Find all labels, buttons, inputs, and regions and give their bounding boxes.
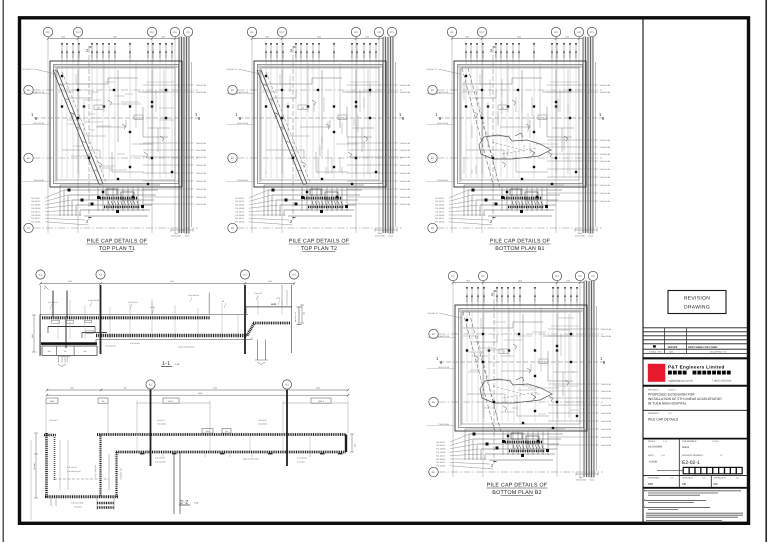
svg-text:KT02-T50 TB: KT02-T50 TB xyxy=(438,366,450,369)
svg-text:T16-150 B1: T16-150 B1 xyxy=(31,204,40,207)
svg-text:REVISION: REVISION xyxy=(684,296,710,302)
svg-text:(T16-150 T): (T16-150 T) xyxy=(258,419,267,422)
svg-text:T16A-150 B1: T16A-150 B1 xyxy=(601,397,612,400)
svg-text:T16-150 T1: T16-150 T1 xyxy=(235,210,244,213)
svg-text:KD: KD xyxy=(432,471,436,474)
svg-text:2T25-G12: 2T25-G12 xyxy=(265,50,268,58)
svg-text:K4: K4 xyxy=(577,31,581,34)
svg-text:T16-150 B2: T16-150 B2 xyxy=(31,207,40,210)
svg-text:2T25-G12: 2T25-G12 xyxy=(563,50,566,58)
svg-text:1/2008: 1/2008 xyxy=(712,440,719,443)
svg-text:1850: 1850 xyxy=(68,280,72,283)
svg-text:T16A-150 B2: T16A-150 B2 xyxy=(437,179,448,182)
svg-text:PROJECT :: PROJECT : xyxy=(648,389,660,392)
svg-text:T16-150 T1: T16-150 T1 xyxy=(435,210,444,213)
svg-text:2T25-G12: 2T25-G12 xyxy=(519,294,522,302)
svg-text:(T16-150 T1): (T16-150 T1) xyxy=(128,301,138,304)
svg-text:(T16A-150 B1): (T16A-150 B1) xyxy=(188,294,200,297)
svg-text:KD: KD xyxy=(432,401,436,404)
svg-text:T16A-150 B2: T16A-150 B2 xyxy=(196,164,207,167)
svg-text:2T25-G12: 2T25-G12 xyxy=(147,50,150,58)
svg-text:750: 750 xyxy=(64,350,67,353)
svg-text:30456: 30456 xyxy=(682,446,690,449)
svg-text:KD: KD xyxy=(431,89,435,92)
svg-text:KD: KD xyxy=(432,333,436,336)
svg-text:T16A-150 B2: T16A-150 B2 xyxy=(400,91,411,94)
svg-text:T16A-150 B2: T16A-150 B2 xyxy=(196,149,207,152)
svg-text:2T25-G12: 2T25-G12 xyxy=(476,50,479,58)
svg-text:2T25-G12: 2T25-G12 xyxy=(575,50,578,58)
svg-text:T16A-150 B1: T16A-150 B1 xyxy=(196,142,207,145)
svg-text:T16-150 B2: T16-150 B2 xyxy=(436,451,445,454)
svg-text:T16-150 T2: T16-150 T2 xyxy=(235,217,244,220)
svg-text:T16-150 T1: T16-150 T1 xyxy=(436,441,445,444)
svg-text:K5: K5 xyxy=(186,31,190,34)
svg-text:2T25-G12: 2T25-G12 xyxy=(171,50,174,58)
svg-text:DATE :: DATE : xyxy=(648,454,655,457)
svg-text:1200: 1200 xyxy=(565,36,569,39)
svg-text:2T25-G12: 2T25-G12 xyxy=(495,50,498,58)
svg-text:T (852) 2155 6121: T (852) 2155 6121 xyxy=(712,379,732,382)
svg-text:2T25-G12: 2T25-G12 xyxy=(91,50,94,58)
svg-text:T16A-150 B2: T16A-150 B2 xyxy=(601,436,612,439)
svg-text:(T16-150 B2): (T16-150 B2) xyxy=(130,342,140,345)
svg-text:2T25-G12: 2T25-G12 xyxy=(369,50,372,58)
svg-text:PILE CAP DETAILS OF: PILE CAP DETAILS OF xyxy=(87,239,148,245)
svg-text:K1: K1 xyxy=(39,274,43,277)
svg-text:S.H: S.H xyxy=(702,477,706,480)
svg-text:T16A-150 B1: T16A-150 B1 xyxy=(601,383,612,386)
svg-text:2T25-G12: 2T25-G12 xyxy=(518,50,521,58)
svg-text:2T25-G12: 2T25-G12 xyxy=(318,50,321,58)
svg-text:1200: 1200 xyxy=(365,36,369,39)
svg-text:T16A-150 B1: T16A-150 B1 xyxy=(600,84,611,87)
svg-text:KT02-T50 TB: KT02-T50 TB xyxy=(237,122,249,125)
svg-text:KD: KD xyxy=(27,227,31,230)
svg-text:K2: K2 xyxy=(280,31,284,34)
svg-text:T16A-150 B1: T16A-150 B1 xyxy=(600,139,611,142)
svg-text:T16-150 T2: T16-150 T2 xyxy=(31,217,40,220)
svg-text:T16-150 T1: T16-150 T1 xyxy=(235,197,244,200)
svg-text:5835: 5835 xyxy=(517,36,521,39)
svg-text:T16-150 B1: T16-150 B1 xyxy=(436,465,445,468)
svg-text:T16A-150 B1: T16A-150 B1 xyxy=(196,172,207,175)
svg-text:T16-150 B2: T16-150 B2 xyxy=(435,214,444,217)
svg-text:IN TUEN MUN HOSPITAL: IN TUEN MUN HOSPITAL xyxy=(648,402,687,406)
svg-text:2T25-G12: 2T25-G12 xyxy=(102,50,105,58)
svg-text:KT02-T50 TB: KT02-T50 TB xyxy=(437,122,449,125)
svg-text:JOB NUMBER :: JOB NUMBER : xyxy=(682,440,698,443)
svg-text:2T25-G12 T1: 2T25-G12 T1 xyxy=(426,68,437,71)
svg-text:(T16-150 T): (T16-150 T) xyxy=(254,292,263,295)
svg-text:2T25-G12: 2T25-G12 xyxy=(363,50,366,58)
svg-text:2T25-G12 T1: 2T25-G12 T1 xyxy=(427,312,438,315)
svg-text:(T12-300): (T12-300) xyxy=(297,460,305,463)
svg-text:2T25-G12 T1: 2T25-G12 T1 xyxy=(226,68,237,71)
svg-text:K1: K1 xyxy=(46,31,50,34)
svg-text:2T25-G12: 2T25-G12 xyxy=(534,294,537,302)
svg-text:K3: K3 xyxy=(555,275,559,278)
svg-text:KR03-T50 TB: KR03-T50 TB xyxy=(437,91,449,94)
svg-text:AS SHOWN: AS SHOWN xyxy=(648,445,662,448)
svg-text:2T25-G12: 2T25-G12 xyxy=(356,50,359,58)
svg-text:2T25-G12: 2T25-G12 xyxy=(66,50,69,58)
svg-text:Lean concrete grout: Lean concrete grout xyxy=(178,346,194,349)
svg-text:T16-150 T2: T16-150 T2 xyxy=(436,444,445,447)
svg-text:T16A-150 B2: T16A-150 B2 xyxy=(438,423,449,426)
svg-text:T#1: T#1 xyxy=(225,430,228,433)
svg-text:BLDG: BLDG xyxy=(389,235,394,238)
svg-text:2T25-G12: 2T25-G12 xyxy=(351,50,354,58)
svg-text:KR03-T50 TB: KR03-T50 TB xyxy=(237,91,249,94)
svg-text:BOTTOM PLAN B2: BOTTOM PLAN B2 xyxy=(492,490,541,496)
svg-text:T16A-150 B2: T16A-150 B2 xyxy=(601,335,612,338)
svg-text:T16A-150 B1: T16A-150 B1 xyxy=(400,172,411,175)
svg-text:KD: KD xyxy=(431,227,435,230)
svg-text:T16A-150 B2: T16A-150 B2 xyxy=(237,179,248,182)
svg-text:T16A-150 B1: T16A-150 B1 xyxy=(400,156,411,159)
svg-text:K2: K2 xyxy=(149,384,153,387)
svg-text:1425: 1425 xyxy=(70,387,74,390)
svg-text:T16-150 B1: T16-150 B1 xyxy=(235,204,244,207)
svg-text:T16A-150 B1: T16A-150 B1 xyxy=(601,428,612,431)
svg-text:K2: K2 xyxy=(481,275,485,278)
svg-text:1200: 1200 xyxy=(161,36,165,39)
svg-text:T16-150 T1: T16-150 T1 xyxy=(31,210,40,213)
svg-text:2T25-G12: 2T25-G12 xyxy=(570,294,573,302)
svg-text:APPROVED :: APPROVED : xyxy=(714,477,728,480)
svg-text:EXTENSION: EXTENSION xyxy=(171,235,182,238)
svg-text:T16A-150 B1: T16A-150 B1 xyxy=(601,412,612,415)
svg-text:KD: KD xyxy=(231,227,235,230)
svg-text:6140: 6140 xyxy=(213,387,217,390)
svg-text:T16A-150 B2: T16A-150 B2 xyxy=(600,176,611,179)
svg-text:14050: 14050 xyxy=(198,392,203,395)
svg-text:BLDG: BLDG xyxy=(590,479,595,482)
svg-text:12/10/09: 12/10/09 xyxy=(668,346,678,349)
svg-text:TOP PLAN T2: TOP PLAN T2 xyxy=(301,246,337,252)
svg-text:KD: KD xyxy=(231,157,235,160)
svg-text:PILE CAP DETAILS: PILE CAP DETAILS xyxy=(648,417,679,421)
svg-text:(T16-150 T1): (T16-150 T1) xyxy=(48,301,58,304)
svg-text:450: 450 xyxy=(48,350,51,353)
svg-text:PILE CAP DETAILS OF: PILE CAP DETAILS OF xyxy=(490,239,551,245)
svg-text:2T25-G12: 2T25-G12 xyxy=(306,50,309,58)
svg-text:T16-150 T2: T16-150 T2 xyxy=(31,200,40,203)
svg-text:T16-150 T2: T16-150 T2 xyxy=(436,461,445,464)
svg-text:SMF-2: SMF-2 xyxy=(318,400,325,403)
svg-text:2T25-G12: 2T25-G12 xyxy=(483,294,486,302)
svg-text:K3: K3 xyxy=(554,31,558,34)
svg-text:PROPOSED EXTENSION FOR: PROPOSED EXTENSION FOR xyxy=(648,392,695,396)
svg-text:T16A-150 B2: T16A-150 B2 xyxy=(196,196,207,199)
svg-text:T16A-150 B1: T16A-150 B1 xyxy=(600,153,611,156)
svg-text:2T25-G12: 2T25-G12 xyxy=(129,50,132,58)
svg-text:750: 750 xyxy=(303,312,306,315)
svg-text:2T25-G12: 2T25-G12 xyxy=(470,50,473,58)
svg-text:T16A-150 B1: T16A-150 B1 xyxy=(400,142,411,145)
svg-text:K4: K4 xyxy=(173,31,177,34)
svg-text:2T25-G12: 2T25-G12 xyxy=(300,50,303,58)
svg-text:2T25-G12: 2T25-G12 xyxy=(78,50,81,58)
svg-text:(T16-150 T2/B2): (T16-150 T2/B2) xyxy=(58,355,71,358)
svg-text:eng@ptelgroup.com.hk: eng@ptelgroup.com.hk xyxy=(668,379,694,382)
svg-text:K3: K3 xyxy=(354,31,358,34)
svg-text:BLDG: BLDG xyxy=(185,235,190,238)
svg-text:T16-150 B2: T16-150 B2 xyxy=(235,214,244,217)
svg-text:1200: 1200 xyxy=(566,280,570,283)
svg-text:(T16-150 T): (T16-150 T) xyxy=(49,419,58,422)
svg-text:SYMBOL: SYMBOL xyxy=(649,350,657,353)
svg-text:AB: AB xyxy=(682,482,686,486)
svg-text:T16-150 B1: T16-150 B1 xyxy=(435,221,444,224)
svg-text:K5: K5 xyxy=(390,31,394,34)
svg-text:1-1: 1-1 xyxy=(162,361,170,367)
svg-text:LA05071: LA05071 xyxy=(668,389,677,392)
svg-text:A1203: A1203 xyxy=(150,306,155,309)
svg-text:(T16-150 B1): (T16-150 B1) xyxy=(297,457,307,460)
svg-text:T16A-150 B1: T16A-150 B1 xyxy=(600,184,611,187)
svg-text:B14: B14 xyxy=(137,117,140,120)
svg-text:T16A-150 B1: T16A-150 B1 xyxy=(400,84,411,87)
svg-text:T16A-150 B1: T16A-150 B1 xyxy=(400,188,411,191)
svg-text:T16A-150 B2: T16A-150 B2 xyxy=(601,420,612,423)
svg-text:SMD: SMD xyxy=(50,400,55,403)
svg-text:T16-150 B1: T16-150 B1 xyxy=(31,221,40,224)
svg-text:T16-150 T1: T16-150 T1 xyxy=(436,454,445,457)
svg-text:2T25-G12 T1: 2T25-G12 T1 xyxy=(22,68,33,71)
svg-text:EXTENSION: EXTENSION xyxy=(375,235,386,238)
svg-text:T16A-150 B1: T16A-150 B1 xyxy=(400,203,411,206)
svg-text:EXTENSION: EXTENSION xyxy=(575,235,586,238)
svg-text:T16-150 B2: T16-150 B2 xyxy=(435,207,444,210)
svg-text:(T16-150 B1): (T16-150 B1) xyxy=(155,457,165,460)
svg-text:T16A-150 B1: T16A-150 B1 xyxy=(196,156,207,159)
svg-text:T16A-150 B2: T16A-150 B2 xyxy=(400,196,411,199)
svg-text:T16A-150 B1: T16A-150 B1 xyxy=(196,84,207,87)
svg-text:(T12-300): (T12-300) xyxy=(74,505,82,508)
svg-text:5835: 5835 xyxy=(113,36,117,39)
svg-text:K4: K4 xyxy=(578,275,582,278)
svg-text:K5: K5 xyxy=(590,31,594,34)
svg-text:K2: K2 xyxy=(76,31,80,34)
svg-text:K3: K3 xyxy=(150,31,154,34)
svg-text:2T25-G12: 2T25-G12 xyxy=(159,50,162,58)
svg-text:SCALE :: SCALE : xyxy=(648,440,657,443)
svg-text:(T16-150 T1): (T16-150 T1) xyxy=(67,466,77,469)
svg-text:T16A-150 B2: T16A-150 B2 xyxy=(400,164,411,167)
svg-text:DRAWING NUMBER :: DRAWING NUMBER : xyxy=(682,454,704,457)
svg-text:T16A-150 B1: T16A-150 B1 xyxy=(601,444,612,447)
svg-text:2T25-G12: 2T25-G12 xyxy=(312,50,315,58)
svg-text:2T25-G12: 2T25-G12 xyxy=(108,50,111,58)
svg-text:B14: B14 xyxy=(542,361,545,364)
svg-text:1850: 1850 xyxy=(465,36,469,39)
svg-text:1A6: 1A6 xyxy=(301,107,304,110)
svg-text:2T25-G12: 2T25-G12 xyxy=(466,294,469,302)
svg-text:T16A-150 B1: T16A-150 B1 xyxy=(196,203,207,206)
svg-text:T16-150 B2: T16-150 B2 xyxy=(436,458,445,461)
svg-text:750: 750 xyxy=(354,444,357,447)
svg-text:(T12-300 EW): (T12-300 EW) xyxy=(105,345,116,348)
svg-text:2T25-G12: 2T25-G12 xyxy=(551,50,554,58)
svg-text:KR03-T50 TB: KR03-T50 TB xyxy=(438,335,450,338)
svg-text:T16A-150 B2: T16A-150 B2 xyxy=(601,404,612,407)
svg-text:2T25-G12: 2T25-G12 xyxy=(557,294,560,302)
svg-text:T16A-150 B2: T16A-150 B2 xyxy=(196,180,207,183)
svg-text:K4: K4 xyxy=(292,274,296,277)
svg-text:2T25-G12: 2T25-G12 xyxy=(477,294,480,302)
svg-text:PILE CAP DETAILS OF: PILE CAP DETAILS OF xyxy=(487,483,548,489)
svg-text:2T25-G12: 2T25-G12 xyxy=(152,50,155,58)
svg-text:KT02-T50 TB: KT02-T50 TB xyxy=(33,122,45,125)
svg-text:5835: 5835 xyxy=(317,36,321,39)
svg-text:1850: 1850 xyxy=(466,280,470,283)
svg-text:2T25-G12: 2T25-G12 xyxy=(375,50,378,58)
svg-text:T16A-150 B2: T16A-150 B2 xyxy=(33,179,44,182)
svg-text:INSTALLATION OF 5TH LINEAR ACC: INSTALLATION OF 5TH LINEAR ACCELERATOR xyxy=(648,397,722,401)
svg-text:2T25-G12: 2T25-G12 xyxy=(96,50,99,58)
svg-text:7625: 7625 xyxy=(170,280,174,283)
svg-text:(T16-150 T2/B2): (T16-150 T2/B2) xyxy=(71,502,84,505)
svg-text:2455: 2455 xyxy=(316,387,320,390)
svg-text:K2: K2 xyxy=(99,274,103,277)
svg-text:T16A-150 B2: T16A-150 B2 xyxy=(601,390,612,393)
svg-text:T16-150 T1: T16-150 T1 xyxy=(31,197,40,200)
svg-text:2T25-G12: 2T25-G12 xyxy=(270,50,273,58)
svg-text:2T25-G12: 2T25-G12 xyxy=(552,294,555,302)
svg-text:T16A-150 B1: T16A-150 B1 xyxy=(601,328,612,331)
svg-text:1A6: 1A6 xyxy=(97,107,100,110)
svg-text:455: 455 xyxy=(124,387,127,390)
svg-text:T16A-150 B2: T16A-150 B2 xyxy=(600,91,611,94)
svg-text:T16A-150 B2: T16A-150 B2 xyxy=(400,149,411,152)
svg-text:J.W: J.W xyxy=(670,477,674,480)
svg-text:2T25-G12: 2T25-G12 xyxy=(276,50,279,58)
svg-text:DRAWING: DRAWING xyxy=(684,305,710,311)
svg-text:T16-150 T1: T16-150 T1 xyxy=(435,197,444,200)
svg-text:450: 450 xyxy=(84,350,87,353)
svg-text:(T16-150 B1) LAP: (T16-150 B1) LAP xyxy=(67,470,81,473)
svg-text:A203: A203 xyxy=(271,303,277,306)
svg-text:2T25-G12: 2T25-G12 xyxy=(507,294,510,302)
svg-text:Mass concrete infill: Mass concrete infill xyxy=(243,458,259,461)
svg-text:5835: 5835 xyxy=(518,280,522,283)
svg-text:1A6: 1A6 xyxy=(502,351,505,354)
svg-text:2T25-G12: 2T25-G12 xyxy=(114,50,117,58)
svg-text:2T25-G12: 2T25-G12 xyxy=(496,294,499,302)
svg-text:2T25-G12: 2T25-G12 xyxy=(282,50,285,58)
svg-text:T#12: T#12 xyxy=(205,430,209,433)
svg-text:T16-150 B2: T16-150 B2 xyxy=(235,207,244,210)
svg-text:K1: K1 xyxy=(450,31,454,34)
svg-text:2T25-G12: 2T25-G12 xyxy=(569,50,572,58)
svg-text:FIRST ISSUE FOR CONST.: FIRST ISSUE FOR CONST. xyxy=(688,346,718,349)
svg-text:MW: MW xyxy=(648,482,653,486)
svg-text:1850: 1850 xyxy=(265,36,269,39)
svg-text:(T12-300 EW): (T12-300 EW) xyxy=(155,460,166,463)
svg-text:DESIGNED :: DESIGNED : xyxy=(648,477,661,480)
svg-text:KR03-T50 TB: KR03-T50 TB xyxy=(33,91,45,94)
svg-text:T16-150 T2: T16-150 T2 xyxy=(435,217,444,220)
svg-text:T16-150 T2: T16-150 T2 xyxy=(435,200,444,203)
svg-text:2T25-G12: 2T25-G12 xyxy=(165,50,168,58)
svg-text:2T25-G12: 2T25-G12 xyxy=(482,50,485,58)
svg-text:K5: K5 xyxy=(591,275,595,278)
svg-text:2T25-G12: 2T25-G12 xyxy=(465,50,468,58)
svg-text:CHECKED :: CHECKED : xyxy=(682,477,694,480)
svg-text:T16-150 T2: T16-150 T2 xyxy=(235,200,244,203)
svg-text:T16A-150 B2: T16A-150 B2 xyxy=(600,192,611,195)
svg-text:DESCRIPTION: DESCRIPTION xyxy=(710,350,723,353)
svg-text:T16-150 B1: T16-150 B1 xyxy=(235,221,244,224)
svg-text:T16A-150 B2: T16A-150 B2 xyxy=(600,160,611,163)
svg-text:2T25-G12: 2T25-G12 xyxy=(506,50,509,58)
svg-text:2T25-G12: 2T25-G12 xyxy=(500,50,503,58)
svg-text:EXTENSION: EXTENSION xyxy=(576,479,587,482)
svg-text:MC: MC xyxy=(714,482,719,486)
svg-text:K2: K2 xyxy=(480,31,484,34)
svg-text:2T25-G12: 2T25-G12 xyxy=(61,50,64,58)
svg-text:KD: KD xyxy=(231,89,235,92)
svg-text:T16-150 B2: T16-150 B2 xyxy=(31,214,40,217)
svg-text:2T25-G12: 2T25-G12 xyxy=(72,50,75,58)
svg-text:K1: K1 xyxy=(451,275,455,278)
svg-text:1500: 1500 xyxy=(31,334,34,338)
svg-text:KD: KD xyxy=(27,157,31,160)
svg-text:T16-150 B1: T16-150 B1 xyxy=(436,448,445,451)
svg-text:K3: K3 xyxy=(285,384,289,387)
svg-text:T16A-150 B2: T16A-150 B2 xyxy=(600,146,611,149)
svg-text:2T25-G12: 2T25-G12 xyxy=(576,294,579,302)
svg-text:T16A-150 B1: T16A-150 B1 xyxy=(196,188,207,191)
svg-text:T16A-150 B1: T16A-150 B1 xyxy=(600,168,611,171)
svg-text:K1: K1 xyxy=(250,31,254,34)
svg-text:(40-120 T): (40-120 T) xyxy=(157,419,165,422)
svg-text:BLDG: BLDG xyxy=(589,235,594,238)
svg-text:T16A-150 B1: T16A-150 B1 xyxy=(600,200,611,203)
svg-text:(T16A-150 B2): (T16A-150 B2) xyxy=(88,299,100,302)
svg-text:2455: 2455 xyxy=(268,280,272,283)
svg-text:2T25-G12: 2T25-G12 xyxy=(471,294,474,302)
svg-text:DRAWING :: DRAWING : xyxy=(648,412,660,415)
svg-text:2T25-G12: 2T25-G12 xyxy=(564,294,567,302)
svg-text:2T25-G12: 2T25-G12 xyxy=(295,50,298,58)
svg-text:1850: 1850 xyxy=(61,36,65,39)
svg-text:2T25-G12: 2T25-G12 xyxy=(513,294,516,302)
svg-text:TOP PLAN T1: TOP PLAN T1 xyxy=(99,246,135,252)
svg-text:KD: KD xyxy=(27,89,31,92)
svg-text:KD: KD xyxy=(431,157,435,160)
svg-text:BOTTOM PLAN B1: BOTTOM PLAN B1 xyxy=(495,246,544,252)
svg-text:K3: K3 xyxy=(243,274,247,277)
svg-text:2T25-G12: 2T25-G12 xyxy=(512,50,515,58)
svg-text:9.2008: 9.2008 xyxy=(649,461,657,464)
svg-text:2T25-G12: 2T25-G12 xyxy=(501,294,504,302)
svg-text:2T25: 2T25 xyxy=(276,297,280,300)
svg-text:T16A-150 B2: T16A-150 B2 xyxy=(400,180,411,183)
svg-text:B14: B14 xyxy=(341,117,344,120)
svg-text:2T25-G12: 2T25-G12 xyxy=(556,50,559,58)
svg-text:E2-02-1: E2-02-1 xyxy=(682,460,700,466)
svg-text:1A6: 1A6 xyxy=(501,107,504,110)
svg-text:K4: K4 xyxy=(377,31,381,34)
svg-text:T16A-150 B2: T16A-150 B2 xyxy=(196,91,207,94)
svg-text:(T16-150 B): (T16-150 B) xyxy=(157,423,166,426)
svg-text:(T16-150 B): (T16-150 B) xyxy=(258,423,267,426)
svg-text:B5: B5 xyxy=(222,300,224,303)
svg-text:B14: B14 xyxy=(541,117,544,120)
